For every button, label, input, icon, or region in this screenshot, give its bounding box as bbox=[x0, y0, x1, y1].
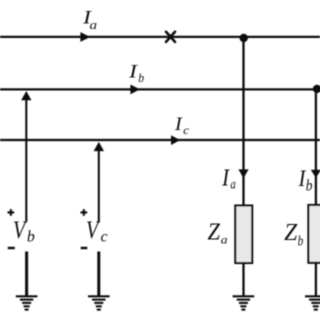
impedance Zb bbox=[308, 205, 320, 263]
current arrow Ic on phase c bbox=[171, 135, 180, 145]
current arrow Ia on phase a bbox=[80, 32, 90, 42]
impedance Za bbox=[235, 206, 252, 264]
wire branch Zb upper bbox=[315, 89, 317, 206]
wire phase a bbox=[0, 36, 320, 38]
current arrow up into phase b bbox=[21, 91, 31, 100]
wire source b upper segment bbox=[25, 100, 27, 223]
svg-text:a: a bbox=[230, 177, 236, 192]
svg-text:c: c bbox=[101, 229, 108, 246]
ground below Za bbox=[233, 296, 255, 309]
plus sign of source Vc bbox=[81, 209, 88, 216]
wire source c lower segment bbox=[97, 252, 100, 297]
svg-text:a: a bbox=[221, 233, 228, 247]
junction node on phase a bbox=[240, 34, 248, 42]
label Zb bbox=[284, 219, 304, 249]
current arrow Ia down branch bbox=[238, 169, 248, 178]
current arrow Ib down branch bbox=[311, 170, 320, 178]
svg-text:Z: Z bbox=[284, 219, 297, 246]
current arrow Ib on phase b bbox=[130, 85, 140, 95]
label Za bbox=[208, 219, 228, 246]
label Vc bbox=[86, 217, 108, 246]
current arrow up into phase c bbox=[94, 142, 104, 151]
svg-text:b: b bbox=[298, 233, 304, 249]
svg-text:Z: Z bbox=[208, 219, 221, 245]
minus sign of source Vb bbox=[8, 247, 15, 250]
svg-text:a: a bbox=[90, 18, 98, 32]
ground below Vb bbox=[16, 296, 38, 309]
wire branch Za lower bbox=[242, 264, 244, 297]
junction node on phase b bbox=[313, 85, 320, 93]
label Ic (top) bbox=[174, 114, 190, 137]
svg-text:I: I bbox=[128, 61, 139, 82]
svg-text:I: I bbox=[174, 114, 183, 135]
ground below Zb bbox=[305, 296, 320, 309]
label Ib (top) bbox=[128, 61, 145, 85]
label Ib (branch) bbox=[298, 166, 313, 194]
wire source c upper segment bbox=[98, 151, 100, 223]
svg-text:b: b bbox=[306, 176, 313, 194]
label Ia (branch) bbox=[221, 165, 236, 192]
fault X mark on phase a bbox=[166, 32, 175, 42]
wire branch Za upper bbox=[242, 38, 244, 206]
svg-text:b: b bbox=[138, 71, 144, 85]
label Ia (top) bbox=[82, 7, 97, 32]
svg-text:I: I bbox=[221, 165, 230, 192]
wire source b lower segment bbox=[25, 252, 28, 297]
wire branch Zb lower bbox=[315, 263, 317, 297]
svg-text:c: c bbox=[183, 124, 190, 137]
label Vb bbox=[13, 217, 35, 246]
svg-text:b: b bbox=[27, 229, 35, 246]
ground below Vc bbox=[88, 296, 110, 309]
plus sign of source Vb bbox=[8, 209, 15, 216]
wire phase b bbox=[0, 88, 318, 90]
minus sign of source Vc bbox=[81, 247, 88, 250]
wire phase c bbox=[0, 139, 320, 141]
